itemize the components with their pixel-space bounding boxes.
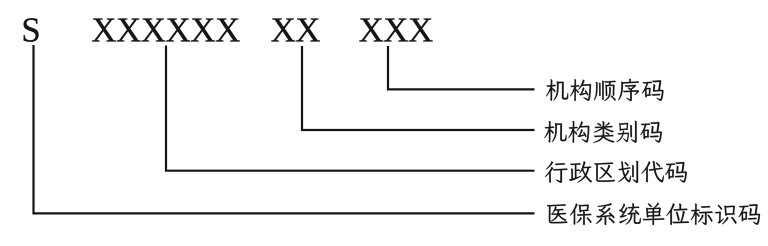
svg-text:S: S	[21, 11, 40, 50]
svg-text:XXXXXX: XXXXXX	[91, 11, 240, 50]
svg-text:XX: XX	[271, 11, 321, 50]
svg-text:XXX: XXX	[359, 11, 434, 50]
